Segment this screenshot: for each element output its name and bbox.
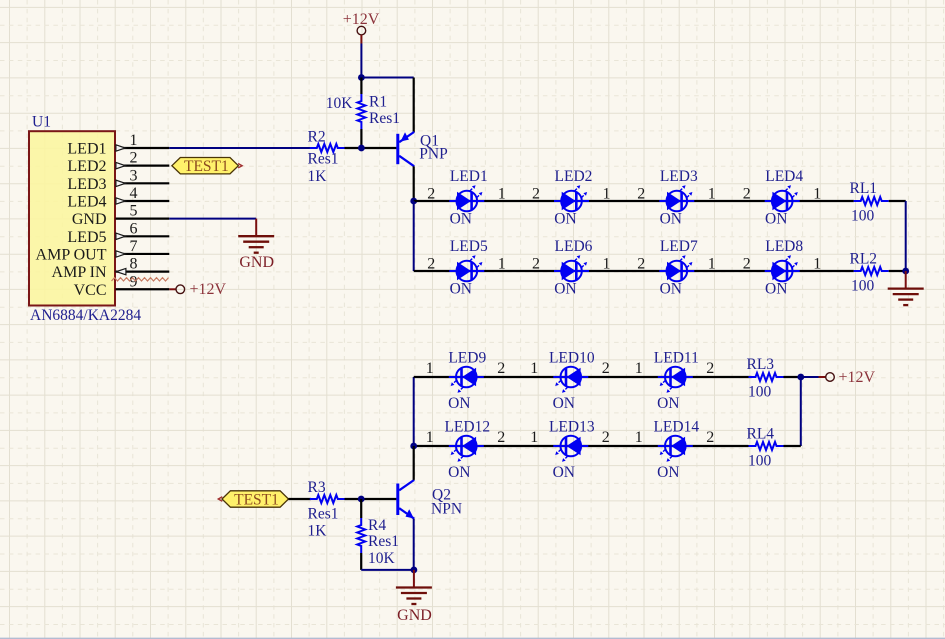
svg-text:TEST1: TEST1: [184, 158, 229, 175]
svg-text:ON: ON: [450, 211, 472, 228]
svg-text:2: 2: [637, 186, 645, 203]
svg-text:LED2: LED2: [555, 168, 593, 185]
svg-text:PNP: PNP: [419, 146, 447, 163]
svg-text:1: 1: [813, 186, 821, 203]
svg-text:VCC: VCC: [74, 282, 107, 299]
svg-text:1: 1: [813, 256, 821, 273]
svg-text:ON: ON: [657, 464, 679, 481]
svg-text:1K: 1K: [308, 168, 328, 185]
svg-text:LED13: LED13: [549, 419, 595, 436]
svg-text:Res1: Res1: [308, 505, 339, 522]
svg-text:GND: GND: [239, 254, 274, 271]
svg-text:Res1: Res1: [368, 533, 399, 550]
svg-text:2: 2: [130, 150, 138, 167]
svg-text:NPN: NPN: [431, 500, 462, 517]
svg-text:1: 1: [530, 429, 538, 446]
svg-text:LED12: LED12: [444, 419, 490, 436]
svg-text:LED1: LED1: [67, 141, 106, 158]
svg-text:100: 100: [851, 207, 875, 224]
svg-text:ON: ON: [660, 211, 682, 228]
svg-text:RL4: RL4: [747, 425, 775, 442]
svg-text:LED8: LED8: [765, 238, 803, 255]
svg-text:ON: ON: [553, 464, 575, 481]
svg-text:2: 2: [427, 186, 435, 203]
svg-text:5: 5: [130, 203, 138, 220]
svg-text:10K: 10K: [368, 550, 396, 567]
svg-text:LED10: LED10: [549, 350, 595, 367]
svg-text:ON: ON: [448, 464, 470, 481]
svg-text:LED3: LED3: [660, 168, 698, 185]
svg-text:LED4: LED4: [765, 168, 803, 185]
svg-text:2: 2: [637, 256, 645, 273]
svg-text:2: 2: [427, 256, 435, 273]
svg-text:LED7: LED7: [660, 238, 698, 255]
svg-text:AMP OUT: AMP OUT: [36, 246, 107, 263]
svg-text:LED6: LED6: [555, 238, 593, 255]
svg-text:1: 1: [426, 429, 434, 446]
svg-text:2: 2: [602, 360, 610, 377]
svg-text:LED5: LED5: [67, 229, 106, 246]
svg-text:ON: ON: [660, 281, 682, 298]
svg-text:LED4: LED4: [67, 193, 106, 210]
svg-text:2: 2: [602, 429, 610, 446]
svg-text:100: 100: [851, 277, 875, 294]
svg-text:ON: ON: [448, 395, 470, 412]
svg-text:U1: U1: [32, 114, 51, 131]
svg-text:GND: GND: [397, 607, 432, 624]
svg-text:AMP IN: AMP IN: [52, 264, 107, 281]
svg-text:2: 2: [532, 256, 540, 273]
svg-text:R1: R1: [369, 94, 387, 111]
svg-text:ON: ON: [554, 281, 576, 298]
svg-text:LED1: LED1: [450, 168, 488, 185]
svg-text:GND: GND: [72, 211, 107, 228]
svg-text:1K: 1K: [308, 523, 328, 540]
svg-text:LED11: LED11: [654, 350, 699, 367]
svg-text:9: 9: [130, 273, 138, 290]
svg-text:LED14: LED14: [653, 419, 699, 436]
svg-text:2: 2: [706, 360, 714, 377]
svg-text:1: 1: [708, 186, 716, 203]
svg-text:10K: 10K: [326, 95, 354, 112]
svg-text:1: 1: [603, 186, 611, 203]
svg-text:1: 1: [603, 256, 611, 273]
svg-text:6: 6: [130, 220, 138, 237]
svg-text:4: 4: [130, 185, 138, 202]
svg-text:RL2: RL2: [850, 250, 878, 267]
svg-text:2: 2: [706, 429, 714, 446]
svg-text:1: 1: [635, 429, 643, 446]
svg-text:ON: ON: [450, 281, 472, 298]
svg-text:1: 1: [708, 256, 716, 273]
svg-text:LED5: LED5: [450, 238, 488, 255]
svg-text:+12V: +12V: [839, 369, 876, 386]
svg-text:2: 2: [532, 186, 540, 203]
svg-text:ON: ON: [657, 395, 679, 412]
svg-text:1: 1: [130, 132, 138, 149]
svg-text:100: 100: [748, 383, 772, 400]
svg-text:1: 1: [498, 256, 506, 273]
svg-text:+12V: +12V: [190, 281, 227, 298]
svg-text:1: 1: [426, 360, 434, 377]
svg-text:LED2: LED2: [67, 158, 106, 175]
svg-text:ON: ON: [765, 211, 787, 228]
svg-text:100: 100: [748, 452, 772, 469]
svg-text:ON: ON: [765, 281, 787, 298]
svg-text:R3: R3: [308, 479, 326, 496]
svg-text:ON: ON: [554, 211, 576, 228]
svg-text:8: 8: [130, 256, 138, 273]
svg-text:LED3: LED3: [67, 176, 106, 193]
svg-text:ON: ON: [553, 395, 575, 412]
svg-text:2: 2: [743, 186, 751, 203]
svg-text:1: 1: [498, 186, 506, 203]
svg-text:R2: R2: [308, 129, 326, 146]
svg-text:2: 2: [497, 360, 505, 377]
svg-text:1: 1: [530, 360, 538, 377]
svg-text:2: 2: [497, 429, 505, 446]
svg-text:3: 3: [130, 167, 138, 184]
svg-text:RL1: RL1: [850, 180, 878, 197]
svg-text:R4: R4: [368, 517, 386, 534]
svg-text:AN6884/KA2284: AN6884/KA2284: [30, 307, 141, 324]
svg-text:7: 7: [130, 238, 138, 255]
svg-text:TEST1: TEST1: [234, 491, 279, 508]
svg-text:LED9: LED9: [448, 350, 486, 367]
svg-text:1: 1: [635, 360, 643, 377]
svg-text:Res1: Res1: [369, 110, 400, 127]
svg-text:RL3: RL3: [747, 356, 775, 373]
svg-text:Res1: Res1: [308, 151, 339, 168]
svg-text:2: 2: [743, 256, 751, 273]
